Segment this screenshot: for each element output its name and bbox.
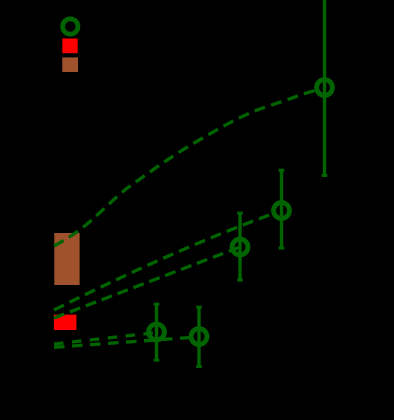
legend marker: brown square: [62, 57, 78, 72]
legend marker: green ring: [63, 19, 78, 34]
dashed curve A to top-right point: [54, 91, 315, 246]
marker P3: [232, 239, 248, 255]
brown bar: [54, 233, 79, 285]
legend marker: red square: [62, 39, 77, 54]
marker P5: [191, 329, 207, 345]
marker P1: [317, 80, 333, 96]
error bar P1: [323, 0, 326, 176]
dashed line D to P2: [54, 214, 272, 310]
dashed line C to P3: [54, 247, 240, 318]
marker P4: [149, 324, 165, 340]
marker P2: [274, 203, 290, 219]
error bar P5: [197, 307, 200, 367]
dashed line E to P4: [54, 333, 157, 345]
dashed line F to P5: [54, 338, 190, 348]
error bar P2: [280, 170, 283, 248]
error bar P4: [155, 304, 158, 360]
red bar: [54, 315, 77, 330]
error bar P3: [238, 213, 241, 280]
